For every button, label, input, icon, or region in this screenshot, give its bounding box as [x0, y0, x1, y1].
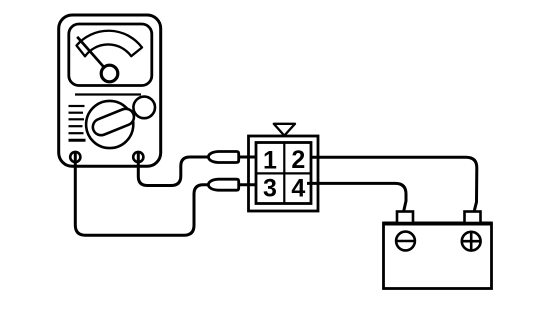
probe connector (bottom) [208, 179, 238, 190]
svg-text:3: 3 [263, 175, 277, 203]
connector block outer housing [249, 136, 319, 211]
svg-text:1: 1 [263, 147, 277, 175]
battery positive post [465, 212, 481, 224]
wire: bottom probe to pin 3 [239, 183, 257, 186]
indicator button (small circle) [133, 97, 155, 119]
connector cell divider (horizontal) [256, 172, 311, 174]
meter scale arc [77, 31, 143, 57]
multimeter terminal (right) [133, 152, 143, 162]
battery negative terminal symbol [396, 232, 415, 251]
battery B1 body [384, 223, 492, 289]
pin 2 label [291, 146, 305, 174]
multimeter M1 body [59, 15, 161, 166]
wire: pin 2 to battery positive post [311, 157, 477, 212]
wire: top probe to pin 1 [239, 156, 257, 159]
connector block inner housing [256, 143, 311, 204]
multimeter display window [69, 24, 152, 86]
wire: pin 4 to battery negative post [307, 183, 406, 212]
pin 1 label [263, 147, 277, 175]
pin 4 label [291, 175, 305, 203]
panel separator line [75, 93, 141, 95]
multimeter terminal (left) [70, 152, 80, 162]
range tick marks [69, 106, 86, 140]
wire: right terminal to probe (top, pin 1) [138, 151, 209, 185]
battery negative post [397, 212, 413, 224]
battery positive terminal symbol [462, 232, 481, 251]
rotary selector knob [86, 101, 136, 148]
svg-text:4: 4 [291, 175, 305, 203]
meter needle [77, 37, 118, 82]
wire: left terminal to probe (bottom, pin 3) [75, 151, 209, 235]
connector cell divider (vertical) [283, 143, 285, 204]
connector keying triangle [274, 124, 295, 136]
svg-text:2: 2 [291, 146, 305, 174]
probe connector (top) [208, 152, 238, 163]
pin 3 label [263, 175, 277, 203]
